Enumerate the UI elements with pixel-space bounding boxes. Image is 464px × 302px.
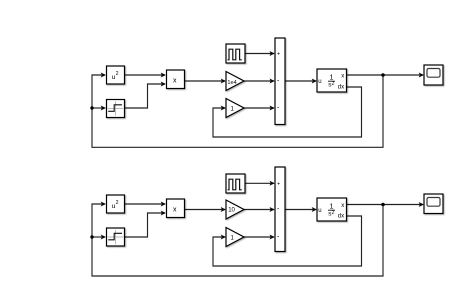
svg-text:x: x <box>341 73 344 79</box>
svg-text:u: u <box>318 208 321 214</box>
svg-text:u: u <box>318 79 321 85</box>
svg-text:2: 2 <box>332 210 335 216</box>
svg-text:+: + <box>277 181 280 187</box>
svg-text:dx: dx <box>338 85 344 91</box>
svg-text:2: 2 <box>116 71 119 77</box>
svg-text:2: 2 <box>332 81 335 87</box>
svg-text:10: 10 <box>228 208 235 214</box>
svg-text:x: x <box>173 77 177 84</box>
svg-text:2: 2 <box>116 200 119 206</box>
svg-text:+: + <box>277 52 280 58</box>
svg-text:1e4: 1e4 <box>227 80 236 86</box>
svg-text:x: x <box>173 206 177 213</box>
svg-text:x: x <box>341 203 344 209</box>
svg-text:dx: dx <box>338 214 344 220</box>
